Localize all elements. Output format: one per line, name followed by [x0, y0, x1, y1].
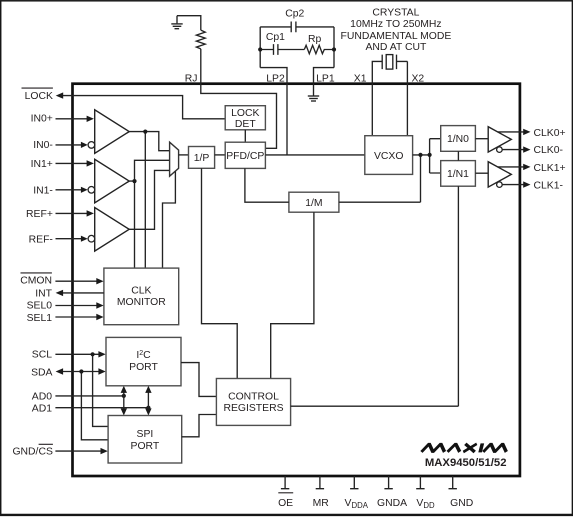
wire CLK0+: [498, 131, 525, 133]
wire SDA to SPI PORT: [81, 372, 108, 440]
node VCXO out (divider branch): [428, 153, 432, 157]
svg-text:10MHz TO 250MHz: 10MHz TO 250MHz: [350, 19, 441, 30]
block VCXO: [365, 136, 413, 175]
svg-text:REF-: REF-: [29, 235, 53, 246]
svg-text:SPI: SPI: [137, 429, 154, 440]
output buffer U5 (CLK1): [488, 162, 511, 187]
wire RJ into box to PFD/CP output node: [201, 49, 277, 148]
wire CLK0-: [502, 149, 524, 151]
svg-text:CLK1+: CLK1+: [534, 163, 566, 174]
wire loop-filter left rail: [259, 27, 261, 68]
svg-text:DET: DET: [235, 119, 256, 130]
svg-text:AD1: AD1: [32, 403, 52, 414]
svg-text:SEL0: SEL0: [27, 301, 53, 312]
pin GND: [449, 476, 457, 489]
block CONTROL REGISTERS: [216, 379, 290, 426]
bus arrow AD1 between ports: [147, 392, 149, 410]
svg-text:I2C: I2C: [136, 350, 151, 361]
node SDA: [79, 369, 83, 373]
svg-text:IN1-: IN1-: [33, 186, 53, 197]
svg-text:SDA: SDA: [31, 367, 52, 378]
wire LOCK DET to PFD/CP: [244, 130, 246, 142]
wire mux out: [179, 154, 189, 156]
svg-text:LP1: LP1: [316, 74, 335, 85]
wire VCXO out: [413, 154, 430, 156]
svg-text:CLK0+: CLK0+: [534, 128, 566, 139]
svg-text:CRYSTAL: CRYSTAL: [372, 7, 419, 18]
pin CMON: [21, 272, 52, 274]
wire CLK1-: [502, 184, 524, 186]
mux: [170, 142, 179, 176]
output buffer U4 (CLK0): [488, 127, 511, 152]
crystal Y1: [372, 61, 407, 85]
wire 1/N0 to buffer: [475, 138, 488, 140]
input buffer U1 (IN0): [95, 110, 130, 154]
node AD0: [122, 394, 126, 398]
main chip box MAX9450: [73, 84, 520, 476]
wire CONTROL REGISTERS to 1/N1: [291, 405, 459, 407]
wire ground to RJ: [177, 16, 201, 30]
pin OE: [281, 476, 289, 489]
block SPI PORT: [108, 416, 182, 464]
pin LOCK (output): [22, 87, 53, 89]
wire 1/M to CONTROL REGISTERS: [271, 212, 314, 378]
block LOCK DET: [225, 106, 265, 130]
svg-text:MAX9450/51/52: MAX9450/51/52: [425, 457, 507, 469]
svg-text:1/P: 1/P: [194, 153, 210, 164]
svg-text:GND/CS: GND/CS: [12, 447, 52, 458]
svg-text:MONITOR: MONITOR: [117, 297, 166, 308]
svg-text:LP2: LP2: [266, 74, 285, 85]
wire VCXO out to 1/M: [420, 155, 422, 202]
node A (loop filter left): [258, 47, 262, 51]
svg-text:PFD/CP: PFD/CP: [226, 151, 264, 162]
block PFD/CP: [225, 142, 265, 168]
wire VCXO out branch to dividers: [430, 139, 441, 173]
wire U1 out to mux: [129, 132, 169, 151]
wire 1/M to PFD/CP: [245, 168, 289, 202]
svg-text:RJ: RJ: [185, 74, 198, 85]
divider 1/N0: [441, 126, 476, 152]
wire 1/N1 to CONTROL REGISTERS: [457, 186, 459, 406]
svg-text:IN1+: IN1+: [31, 159, 53, 170]
svg-text:X1: X1: [354, 74, 367, 85]
svg-text:VDD: VDD: [416, 498, 435, 510]
block CLK MONITOR: [104, 268, 179, 325]
svg-text:Cp1: Cp1: [266, 32, 285, 43]
node VCXO out (1/M tap): [418, 153, 422, 157]
wire U2 out to mux: [129, 160, 169, 181]
pin VDDA: [350, 476, 358, 489]
svg-text:CMON: CMON: [20, 275, 52, 286]
wire CLK1+: [498, 166, 525, 168]
ground (LP1): [308, 96, 319, 101]
node U2 out: [132, 179, 136, 183]
input buffer U3 (REF): [95, 208, 130, 252]
svg-text:IN0-: IN0-: [33, 140, 53, 151]
svg-text:1/N1: 1/N1: [447, 169, 469, 180]
wire LP2 riser: [260, 68, 287, 155]
wire SCL to SPI PORT: [93, 354, 109, 426]
svg-text:AND AT CUT: AND AT CUT: [365, 42, 426, 53]
wire SPI PORT to CONTROL REGISTERS: [182, 415, 217, 437]
svg-text:SEL1: SEL1: [27, 313, 53, 324]
wire PFD/CP to VCXO: [265, 154, 364, 156]
capacitor Cp1: [260, 49, 304, 51]
wire 1/P to CONTROL REGISTERS: [202, 168, 238, 378]
resistor Rp: [304, 45, 334, 53]
divider 1/N1: [441, 161, 476, 187]
svg-text:Rp: Rp: [308, 34, 322, 45]
svg-text:CLK1-: CLK1-: [534, 181, 563, 192]
node SCL: [91, 352, 95, 356]
divider 1/P: [189, 147, 215, 169]
crystal note text: [340, 7, 451, 52]
wire LP1 riser: [314, 68, 335, 96]
svg-text:CONTROL: CONTROL: [228, 391, 279, 402]
wire 1/M to VCXO out node: [339, 201, 421, 203]
svg-text:CLK: CLK: [131, 286, 151, 297]
wire mux tap to CLK MONITOR: [163, 171, 176, 268]
wire U3 out to mux: [129, 170, 169, 229]
wire 1/N1 to buffer: [475, 172, 488, 174]
svg-text:OE: OE: [278, 498, 293, 509]
svg-text:SCL: SCL: [32, 350, 52, 361]
block I2C PORT: [106, 337, 181, 385]
svg-text:1/M: 1/M: [305, 198, 322, 209]
wire LOCK to LOCK DET: [63, 96, 226, 119]
svg-text:FUNDAMENTAL MODE: FUNDAMENTAL MODE: [340, 31, 451, 42]
wire X1 to VCXO: [371, 85, 373, 136]
input buffer U2 (IN1): [95, 159, 130, 203]
svg-text:IN0+: IN0+: [31, 114, 53, 125]
svg-text:REGISTERS: REGISTERS: [223, 403, 283, 414]
svg-text:VCXO: VCXO: [374, 151, 403, 162]
pin GND/CS: [39, 443, 53, 445]
wire loop-filter right rail: [333, 27, 335, 68]
wire 1/P to PFD/CP: [215, 154, 226, 156]
MAXIM logo: [421, 443, 508, 452]
bubble CLK1-: [497, 182, 503, 188]
bubble CLK0-: [497, 147, 503, 153]
svg-text:PORT: PORT: [129, 362, 158, 373]
pin GNDA: [384, 476, 392, 489]
svg-text:LOCK: LOCK: [231, 108, 259, 119]
node U1 out: [143, 130, 147, 134]
svg-text:REF+: REF+: [26, 209, 53, 220]
resistor RJ: [196, 30, 205, 49]
wire I2C PORT to CONTROL REGISTERS: [181, 363, 216, 397]
divider 1/M: [289, 192, 339, 212]
svg-text:VDDA: VDDA: [345, 498, 369, 510]
wire X2 to VCXO: [406, 85, 408, 136]
bus arrow AD0 between ports: [123, 392, 125, 410]
svg-text:INT: INT: [35, 288, 52, 299]
svg-text:PORT: PORT: [131, 441, 160, 452]
ground (top-left, RJ): [171, 16, 182, 29]
svg-text:GNDA: GNDA: [377, 498, 407, 509]
pin VDD: [416, 476, 424, 489]
capacitor Cp2: [260, 26, 334, 28]
svg-text:CLK0-: CLK0-: [534, 145, 563, 156]
pin MR: [316, 476, 324, 489]
wire U2 out to CLK MONITOR: [134, 181, 136, 268]
node AD1: [146, 406, 150, 410]
svg-text:AD0: AD0: [32, 392, 52, 403]
wire 1/N0 to 1/N1: [457, 151, 459, 160]
svg-text:X2: X2: [412, 74, 425, 85]
svg-text:GND: GND: [450, 498, 473, 509]
svg-text:LOCK: LOCK: [25, 91, 53, 102]
svg-text:1/N0: 1/N0: [447, 134, 469, 145]
svg-text:MR: MR: [313, 498, 330, 509]
node B (loop filter right): [332, 47, 336, 51]
wire U1 out to CLK MONITOR: [144, 132, 146, 269]
svg-text:Cp2: Cp2: [285, 9, 304, 20]
